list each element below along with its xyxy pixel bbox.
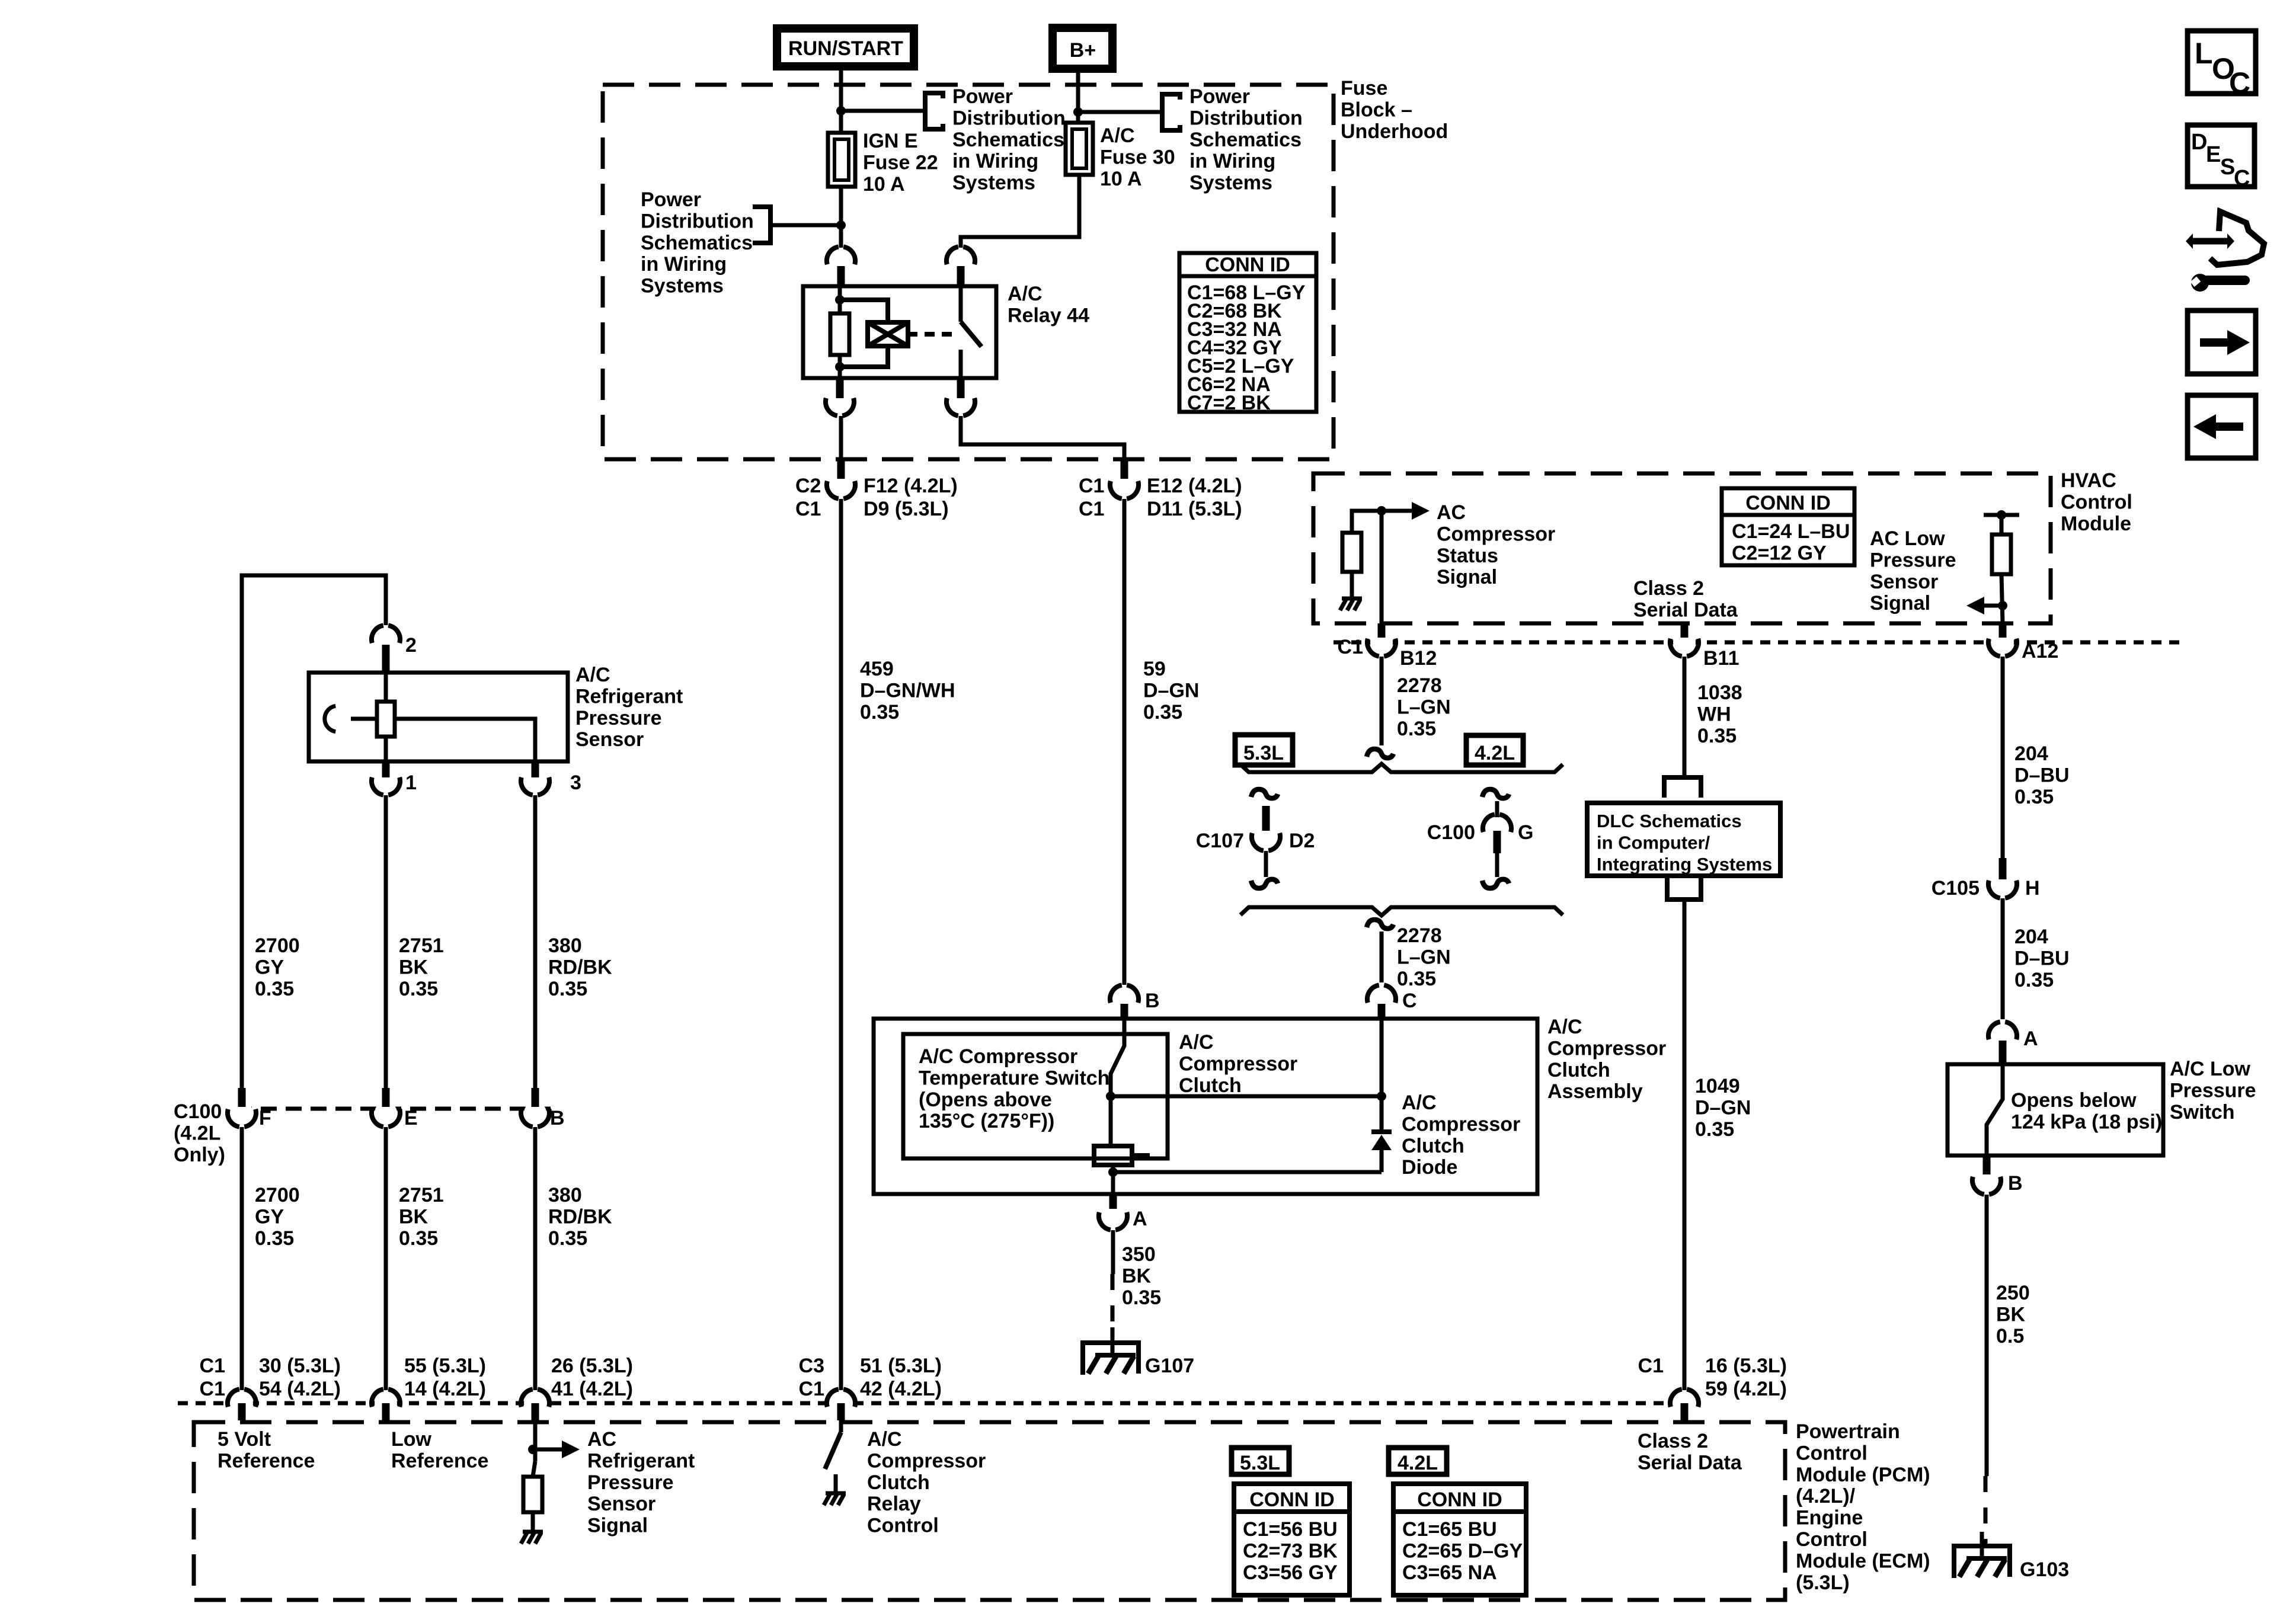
svg-text:Status: Status [1437, 545, 1498, 567]
PCM connector C3/C1 (clutch relay control) [830, 1392, 852, 1414]
svg-text:0.35: 0.35 [255, 978, 294, 1000]
svg-text:Control: Control [867, 1515, 939, 1537]
svg-text:59: 59 [1143, 658, 1166, 680]
svg-text:30 (5.3L): 30 (5.3L) [259, 1355, 341, 1377]
svg-text:AC Low: AC Low [1870, 527, 1945, 550]
svg-text:380: 380 [548, 934, 582, 957]
sensor pin 2 connector [375, 628, 397, 651]
svg-text:Distribution: Distribution [1189, 107, 1303, 129]
svg-text:Fuse: Fuse [1341, 77, 1387, 100]
svg-text:1: 1 [405, 772, 417, 794]
svg-text:14 (4.2L): 14 (4.2L) [404, 1378, 486, 1400]
arrow AC compressor status signal [1382, 509, 1414, 513]
svg-text:0.35: 0.35 [1397, 718, 1436, 740]
wire 2278 to clutch connector C [1380, 932, 1384, 982]
svg-text:A/C: A/C [1402, 1092, 1437, 1114]
svg-text:C3: C3 [799, 1355, 824, 1377]
svg-text:Class 2: Class 2 [1638, 1430, 1708, 1452]
svg-text:B: B [2008, 1172, 2023, 1195]
svg-text:Power: Power [641, 188, 701, 211]
svg-text:D: D [2191, 130, 2207, 155]
svg-text:C1: C1 [1638, 1355, 1664, 1377]
svg-text:C3=65 NA: C3=65 NA [1402, 1561, 1497, 1584]
svg-text:C3=56 GY: C3=56 GY [1243, 1561, 1338, 1584]
temperature element wire [1109, 1096, 1113, 1146]
svg-text:(4.2L: (4.2L [174, 1122, 220, 1144]
svg-text:Systems: Systems [641, 275, 724, 297]
svg-text:0.35: 0.35 [548, 978, 587, 1000]
svg-text:A/C: A/C [1008, 283, 1043, 305]
svg-text:Refrigerant: Refrigerant [587, 1449, 695, 1472]
svg-text:Relay: Relay [867, 1493, 921, 1515]
svg-text:Compressor: Compressor [867, 1449, 986, 1472]
wire 204 D-BU lower [2001, 898, 2005, 1019]
svg-text:0.5: 0.5 [1996, 1325, 2024, 1347]
svg-text:(Opens above: (Opens above [919, 1089, 1052, 1111]
svg-text:C100: C100 [174, 1100, 222, 1123]
svg-text:1038: 1038 [1697, 681, 1742, 704]
svg-text:Assembly: Assembly [1547, 1080, 1643, 1103]
icon vehicle with wrench [2186, 233, 2193, 249]
svg-text:E12 (4.2L): E12 (4.2L) [1147, 475, 1242, 497]
fuse IGN E Fuse 22 10A [828, 133, 855, 187]
connector C100 pin B [524, 1102, 546, 1124]
DLC top bracket [1664, 777, 1701, 798]
label box 5.3L (PCM) [1232, 1448, 1289, 1474]
svg-text:0.35: 0.35 [1122, 1286, 1161, 1309]
svg-text:Engine: Engine [1796, 1507, 1863, 1529]
label box 4.2L [1466, 735, 1523, 765]
sensor internal element [351, 717, 376, 721]
connector B at clutch assembly [1113, 988, 1136, 1010]
HVAC internal ground (status signal) [1342, 597, 1362, 601]
svg-text:C2: C2 [795, 475, 821, 497]
temperature element box [1094, 1146, 1132, 1165]
svg-text:GY: GY [255, 1205, 284, 1228]
svg-text:Compressor: Compressor [1179, 1052, 1297, 1075]
svg-text:(5.3L): (5.3L) [1796, 1571, 1850, 1594]
svg-text:Sensor: Sensor [1870, 571, 1938, 593]
svg-text:Clutch: Clutch [1402, 1135, 1464, 1157]
svg-text:Module (ECM): Module (ECM) [1796, 1550, 1930, 1572]
svg-text:C1: C1 [1079, 475, 1104, 497]
svg-text:Sensor: Sensor [575, 728, 644, 751]
svg-text:2278: 2278 [1397, 924, 1442, 947]
fuse block output connector C1/C1 E12/D11 [1113, 473, 1136, 496]
clutch top rail wire [1111, 1094, 1382, 1099]
svg-text:459: 459 [860, 658, 894, 680]
HVAC connector B11 [1673, 631, 1696, 654]
svg-text:S: S [2220, 155, 2235, 180]
svg-text:16 (5.3L): 16 (5.3L) [1705, 1355, 1787, 1377]
svg-text:A/C Compressor: A/C Compressor [919, 1045, 1077, 1068]
relay solenoid X box [868, 322, 908, 346]
svg-text:Block –: Block – [1341, 98, 1412, 121]
svg-text:RD/BK: RD/BK [548, 956, 612, 978]
svg-text:B: B [550, 1107, 565, 1129]
wire 1049 D-GN to PCM [1683, 900, 1687, 1390]
svg-text:C2=12 GY: C2=12 GY [1732, 542, 1827, 564]
svg-text:Pressure: Pressure [575, 707, 662, 729]
svg-text:G107: G107 [1145, 1355, 1194, 1377]
svg-text:Clutch: Clutch [1179, 1074, 1242, 1097]
relay solenoid X-box loop wire [840, 300, 888, 322]
HVAC connector A12 [1991, 631, 2014, 654]
svg-text:Reference: Reference [218, 1449, 315, 1472]
wire 459 D-GN/WH to PCM [839, 499, 843, 1390]
wire A/C fuse to relay switch pin [961, 175, 1079, 248]
ground G103 [1980, 1532, 1984, 1560]
svg-text:A: A [1133, 1208, 1147, 1230]
wire to right power distribution bracket [1078, 110, 1160, 114]
wire B+ down to fuse A/C [1076, 69, 1080, 123]
svg-text:55 (5.3L): 55 (5.3L) [404, 1355, 486, 1377]
svg-text:26 (5.3L): 26 (5.3L) [551, 1355, 633, 1377]
svg-text:Pressure: Pressure [1870, 549, 1956, 571]
svg-text:E: E [404, 1107, 418, 1129]
5.3L branch hook [1251, 789, 1278, 798]
relay pin connector C1 (switch top) [949, 249, 972, 272]
svg-text:250: 250 [1996, 1282, 2030, 1304]
svg-text:5.3L: 5.3L [1240, 1452, 1280, 1474]
svg-text:Compressor: Compressor [1402, 1113, 1520, 1135]
svg-text:RUN/START: RUN/START [788, 37, 903, 60]
power feed box B+ [1053, 28, 1112, 69]
connector C100 pin F [231, 1102, 253, 1124]
wire 2751 BK lower [384, 1127, 388, 1390]
connector B below low pressure switch [1975, 1169, 1998, 1192]
svg-text:C1: C1 [1079, 498, 1104, 520]
svg-text:C100: C100 [1427, 821, 1475, 844]
svg-text:41 (4.2L): 41 (4.2L) [551, 1378, 633, 1400]
relay A/C Relay 44 box [803, 286, 996, 378]
svg-text:Temperature Switch: Temperature Switch [919, 1067, 1109, 1089]
svg-text:in Wiring: in Wiring [1189, 150, 1275, 172]
svg-text:AC: AC [587, 1428, 616, 1451]
svg-text:AC: AC [1437, 501, 1466, 524]
svg-text:C1: C1 [795, 498, 821, 520]
connector C100 pin E [375, 1102, 397, 1124]
CONN ID table (PCM 4.2L) [1393, 1484, 1526, 1595]
wire IGN E fuse to relay coil pin [839, 187, 843, 248]
5.3L branch bottom hook [1251, 879, 1278, 888]
PCM internal resistor [523, 1477, 542, 1512]
icon forward arrow box [2188, 311, 2256, 374]
svg-text:204: 204 [2014, 926, 2048, 948]
svg-text:Control: Control [1796, 1442, 1868, 1464]
svg-text:C1: C1 [200, 1355, 225, 1377]
label box 4.2L (PCM) [1389, 1448, 1447, 1474]
svg-text:B11: B11 [1703, 647, 1739, 670]
wire 380 RD/BK lower [533, 1127, 538, 1390]
sensor internal pressure cup symbol [325, 706, 335, 731]
4.2L branch hook [1482, 789, 1509, 798]
wire B12 inside HVAC [1380, 511, 1384, 623]
fuse A/C Fuse 30 10A [1066, 123, 1093, 175]
svg-text:Powertrain: Powertrain [1796, 1420, 1900, 1443]
wire 380 RD/BK upper [533, 795, 538, 1088]
svg-text:Sensor: Sensor [587, 1493, 655, 1515]
svg-text:C1: C1 [799, 1378, 824, 1400]
svg-text:D–GN/WH: D–GN/WH [860, 679, 955, 702]
wire 5.3L branch lower [1264, 851, 1268, 877]
svg-text:0.35: 0.35 [1397, 968, 1436, 990]
svg-text:C1=65 BU: C1=65 BU [1402, 1518, 1497, 1541]
wire 350 BK [1111, 1230, 1115, 1274]
svg-text:380: 380 [548, 1184, 582, 1206]
svg-text:10 A: 10 A [863, 173, 905, 196]
relay switch arm [959, 286, 963, 322]
label box 5.3L [1235, 735, 1293, 765]
Powertrain Control Module dashed box [194, 1422, 1785, 1600]
svg-text:42 (4.2L): 42 (4.2L) [860, 1378, 942, 1400]
svg-text:C107: C107 [1196, 830, 1244, 852]
svg-text:Fuse 30: Fuse 30 [1100, 146, 1175, 168]
connector C at clutch assembly [1370, 988, 1393, 1010]
svg-text:in Wiring: in Wiring [641, 253, 727, 276]
svg-text:135°C (275°F)): 135°C (275°F)) [919, 1110, 1054, 1132]
svg-text:BK: BK [399, 1205, 428, 1228]
4.2L branch bottom hook [1482, 879, 1509, 888]
svg-text:in Computer/: in Computer/ [1597, 832, 1710, 853]
svg-text:D11 (5.3L): D11 (5.3L) [1147, 498, 1242, 520]
svg-text:5 Volt: 5 Volt [218, 1428, 271, 1451]
svg-text:Signal: Signal [587, 1515, 648, 1537]
svg-text:10 A: 10 A [1100, 168, 1142, 190]
HVAC AC low pressure sensor resistor branch [1984, 513, 2019, 517]
icon back arrow box [2188, 395, 2256, 458]
svg-text:BK: BK [1122, 1265, 1152, 1287]
wire-end hook above top brace [1367, 749, 1393, 758]
icon DESC box [2188, 125, 2255, 187]
svg-text:DLC Schematics: DLC Schematics [1597, 811, 1742, 831]
svg-text:C: C [2229, 66, 2250, 100]
PCM connector C1 (5 volt reference) [231, 1392, 253, 1414]
relay pin connector C2 (coil top) [830, 249, 852, 272]
svg-text:0.35: 0.35 [399, 978, 438, 1000]
junction dot switch/rail [1106, 1092, 1115, 1101]
svg-text:C2=73 BK: C2=73 BK [1243, 1539, 1338, 1562]
svg-text:0.35: 0.35 [860, 701, 899, 724]
svg-text:Schematics: Schematics [952, 129, 1064, 151]
svg-text:HVAC: HVAC [2061, 469, 2116, 492]
in-line connector C107/D2 [1255, 825, 1277, 848]
svg-text:Compressor: Compressor [1547, 1037, 1666, 1060]
svg-text:0.35: 0.35 [2014, 969, 2054, 991]
svg-text:C1=56 BU: C1=56 BU [1243, 1518, 1338, 1541]
svg-text:L–GN: L–GN [1397, 946, 1451, 968]
svg-text:2278: 2278 [1397, 674, 1442, 697]
svg-text:(4.2L)/: (4.2L)/ [1796, 1485, 1856, 1507]
PCM internal ground (relay control) [826, 1491, 846, 1496]
relay solenoid actuation stub [908, 332, 917, 337]
svg-text:Only): Only) [174, 1144, 225, 1166]
svg-text:Switch: Switch [2170, 1101, 2235, 1124]
svg-text:2751: 2751 [399, 934, 444, 957]
ground G107 [1111, 1327, 1115, 1357]
svg-text:54 (4.2L): 54 (4.2L) [259, 1378, 341, 1400]
A/C Refrigerant Pressure Sensor box [309, 673, 568, 761]
sensor pin 3 connector [524, 770, 546, 792]
dashed wire to G103 [1984, 1476, 1988, 1546]
svg-text:Schematics: Schematics [641, 232, 753, 254]
svg-text:E: E [2206, 142, 2221, 167]
svg-text:Low: Low [391, 1428, 432, 1451]
svg-text:Signal: Signal [1870, 592, 1930, 614]
wire to left bracket [773, 223, 841, 228]
svg-text:D–BU: D–BU [2014, 947, 2070, 969]
svg-text:B: B [1145, 990, 1160, 1012]
DLC Schematics box [1587, 803, 1780, 876]
svg-text:0.35: 0.35 [399, 1227, 438, 1250]
svg-text:A/C: A/C [575, 664, 610, 686]
svg-text:Reference: Reference [391, 1449, 488, 1472]
svg-text:A/C: A/C [1547, 1016, 1582, 1038]
relay bottom pin connector (coil) [829, 391, 851, 413]
svg-text:Module: Module [2061, 513, 2131, 535]
svg-text:0.35: 0.35 [255, 1227, 294, 1250]
svg-text:D9 (5.3L): D9 (5.3L) [864, 498, 949, 520]
sensor internal wiper wire to pin 3 [395, 719, 535, 761]
svg-text:Clutch: Clutch [1547, 1059, 1610, 1081]
svg-text:GY: GY [255, 956, 284, 978]
wire bottom rail to connector A [1111, 1172, 1115, 1194]
DLC bottom bracket [1667, 878, 1701, 900]
svg-text:Systems: Systems [1189, 172, 1272, 194]
svg-text:A/C Low: A/C Low [2170, 1058, 2251, 1080]
PCM sensor signal branch [533, 1420, 538, 1461]
svg-text:350: 350 [1122, 1243, 1156, 1266]
wire 4.2L branch [1495, 801, 1499, 827]
wire element to bottom rail [1111, 1165, 1115, 1172]
wire 59 D-GN to compressor clutch [1123, 499, 1127, 985]
svg-text:0.35: 0.35 [1697, 725, 1737, 747]
engine option brace (top) [1240, 764, 1563, 772]
svg-text:204: 204 [2014, 742, 2048, 765]
CONN ID table (PCM 5.3L) [1234, 1484, 1350, 1595]
relay actuation dashed linkage [925, 332, 954, 337]
in-line connector C100/G [1486, 817, 1508, 840]
svg-text:Pressure: Pressure [587, 1471, 674, 1494]
wire relay switch output down and right to fuse block edge [961, 416, 1124, 459]
CONN ID table (HVAC) [1722, 488, 1854, 565]
svg-text:59 (4.2L): 59 (4.2L) [1705, 1378, 1787, 1400]
svg-text:RD/BK: RD/BK [548, 1205, 612, 1228]
wire 2751 BK upper [384, 795, 388, 1088]
svg-text:Systems: Systems [952, 172, 1035, 194]
PCM relay control switch [839, 1420, 843, 1432]
engine option brace (bottom) [1240, 907, 1563, 916]
svg-text:Fuse 22: Fuse 22 [863, 151, 938, 174]
svg-text:C: C [1402, 990, 1417, 1012]
svg-text:Power: Power [952, 85, 1013, 108]
svg-text:D–BU: D–BU [2014, 764, 2070, 786]
temperature switch arm [1111, 1019, 1124, 1096]
svg-text:1049: 1049 [1695, 1075, 1740, 1097]
junction dot at RUN/START branch [836, 106, 846, 116]
svg-text:0.35: 0.35 [2014, 786, 2054, 808]
svg-text:F12 (4.2L): F12 (4.2L) [864, 475, 958, 497]
HVAC control module dashed box [1313, 473, 2051, 623]
svg-text:Diode: Diode [1402, 1156, 1457, 1179]
svg-text:0.35: 0.35 [1143, 701, 1182, 724]
wire 2700 GY lower [240, 1127, 244, 1390]
wire to power distribution bracket (right) [841, 109, 923, 113]
svg-text:C1=24 L–BU: C1=24 L–BU [1732, 520, 1850, 543]
junction dot to left power distribution bracket [836, 220, 846, 230]
svg-text:C: C [2234, 166, 2250, 191]
HVAC connector row dotted line [1334, 641, 2187, 645]
in-line connector C105/H [1991, 873, 2014, 895]
svg-text:F: F [259, 1107, 271, 1129]
svg-text:0.35: 0.35 [1695, 1118, 1734, 1141]
arrow AC low pressure sensor signal (left) [1982, 604, 2003, 608]
svg-text:Refrigerant: Refrigerant [575, 685, 683, 708]
hook below bottom brace [1367, 920, 1393, 929]
svg-text:C105: C105 [1932, 877, 1980, 900]
svg-text:CONN ID: CONN ID [1745, 492, 1831, 514]
HVAC connector C1/B12 [1370, 631, 1393, 654]
svg-text:2700: 2700 [255, 1184, 300, 1206]
svg-text:Relay 44: Relay 44 [1008, 304, 1089, 327]
svg-text:4.2L: 4.2L [1398, 1452, 1438, 1474]
svg-text:Power: Power [1189, 85, 1250, 108]
PCM internal ground (sensor signal) [523, 1530, 543, 1534]
svg-text:in Wiring: in Wiring [952, 150, 1038, 172]
svg-text:3: 3 [570, 772, 581, 794]
svg-text:Opens below: Opens below [2011, 1089, 2137, 1112]
svg-text:124 kPa (18 psi): 124 kPa (18 psi) [2011, 1110, 2162, 1133]
junction dot rail/diode [1377, 1092, 1386, 1101]
PCM connector (AC refrigerant pressure sensor signal) [524, 1392, 546, 1414]
relay bottom pin connector (switch) [949, 391, 972, 413]
svg-text:Distribution: Distribution [641, 210, 754, 232]
connector A at low pressure switch [1991, 1025, 2014, 1047]
svg-text:G103: G103 [2020, 1558, 2069, 1581]
svg-text:A/C: A/C [1179, 1031, 1214, 1054]
bracket to Power Distribution Schematics label [925, 93, 943, 129]
svg-text:Signal: Signal [1437, 566, 1497, 588]
svg-text:B12: B12 [1400, 647, 1437, 670]
sensor pin 1 connector [375, 770, 397, 792]
svg-text:B+: B+ [1070, 39, 1096, 62]
svg-text:Distribution: Distribution [952, 107, 1066, 129]
junction dot low pressure signal [1998, 601, 2007, 610]
svg-text:Serial Data: Serial Data [1633, 598, 1738, 621]
wire C connector into diode [1380, 1019, 1384, 1096]
PCM connector dotted line [178, 1401, 1668, 1406]
svg-text:Schematics: Schematics [1189, 129, 1302, 151]
svg-text:IGN E: IGN E [863, 130, 918, 152]
svg-text:BK: BK [399, 956, 428, 978]
svg-text:CONN ID: CONN ID [1205, 254, 1290, 276]
PCM connector C1 (class 2 serial data) [1673, 1392, 1696, 1414]
svg-text:Module (PCM): Module (PCM) [1796, 1464, 1930, 1486]
wire relay coil output down to fuse block edge [839, 416, 843, 459]
junction dot AC status [1377, 506, 1386, 516]
svg-text:A/C: A/C [1100, 124, 1135, 147]
wire 5V ref jog over sensor [242, 575, 386, 1088]
power feed box RUN/START [777, 28, 914, 66]
wire 204 D-BU upper [2001, 657, 2005, 858]
svg-text:D2: D2 [1289, 830, 1315, 852]
svg-text:C1: C1 [1338, 636, 1363, 658]
svg-text:Pressure: Pressure [2170, 1079, 2256, 1102]
svg-text:4.2L: 4.2L [1475, 742, 1515, 764]
svg-text:Underhood: Underhood [1341, 120, 1448, 143]
svg-text:A: A [2023, 1028, 2038, 1050]
wire 1038 WH from B11 [1683, 657, 1687, 777]
